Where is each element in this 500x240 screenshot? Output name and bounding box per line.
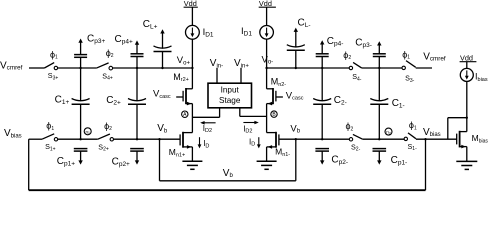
capacitor C2-: [313, 68, 347, 139]
svg-text:Cp2+: Cp2+: [112, 157, 130, 169]
wire S3+ to S4+: [58, 67, 97, 69]
svg-text:Vo-: Vo-: [262, 54, 274, 65]
svg-text:Mn1-: Mn1-: [275, 147, 290, 158]
svg-text:S3-: S3-: [405, 74, 415, 84]
input stage box U1: [208, 83, 252, 108]
svg-text:ID: ID: [249, 137, 255, 147]
wire A to input stage: [192, 116, 219, 118]
capacitor C1-: [370, 68, 404, 139]
wire S2+ to Mn1+ gate / Vb node: [114, 138, 181, 140]
capacitor C1+: [55, 68, 90, 139]
transistor Mn1-: [267, 132, 291, 158]
svg-text:Cp1-: Cp1-: [391, 155, 408, 167]
ground below Mbias: [456, 147, 477, 170]
current arrow ID2 left: [200, 121, 215, 134]
transistor Mn2-: [267, 68, 287, 105]
wire S2- to S1-: [363, 138, 405, 140]
wire Vbias bottom rail: [29, 139, 426, 190]
capacitor Cp1+: [57, 149, 88, 168]
transistor Mn1+: [169, 132, 193, 159]
node n2: [385, 128, 392, 135]
switch S1- phi1: [404, 120, 417, 152]
node Vin+: [234, 58, 249, 83]
svg-text:Vb: Vb: [157, 123, 168, 134]
node Vcasc left: [153, 89, 183, 100]
wire Vb rail box: [160, 139, 296, 181]
svg-text:S1-: S1-: [408, 142, 418, 152]
capacitor Cp1-: [373, 149, 408, 167]
svg-text:Vbias: Vbias: [423, 127, 441, 138]
svg-text:n1: n1: [85, 129, 90, 135]
current arrow ID right: [249, 137, 261, 148]
svg-text:S2-: S2-: [351, 142, 361, 152]
node Vin-: [210, 58, 223, 83]
svg-text:ϕ2: ϕ2: [343, 50, 351, 61]
wire node B vertical: [266, 104, 268, 133]
current arrow ID2 right: [243, 121, 259, 135]
svg-text:Input: Input: [221, 85, 240, 94]
svg-text:Ibias: Ibias: [475, 72, 488, 83]
svg-text:ϕ1: ϕ1: [409, 120, 417, 131]
wire input stage to node B: [239, 108, 241, 117]
svg-text:Vcasc: Vcasc: [153, 89, 171, 100]
current source ID1 left: [186, 7, 214, 68]
svg-text:ϕ1: ϕ1: [46, 121, 54, 132]
current source ID1 right: [241, 7, 273, 68]
svg-text:Cp3-: Cp3-: [355, 38, 372, 50]
svg-text:C2-: C2-: [334, 95, 347, 107]
current arrow ID left: [198, 137, 210, 149]
svg-text:Mbias: Mbias: [472, 133, 489, 144]
capacitor Cp3-: [355, 38, 386, 69]
svg-text:S2+: S2+: [98, 143, 109, 153]
svg-text:S1+: S1+: [45, 142, 56, 152]
switch S1+ phi1: [42, 121, 58, 153]
svg-text:ID: ID: [203, 139, 209, 149]
svg-text:Vb: Vb: [290, 123, 300, 134]
power Vdd right: [259, 0, 276, 8]
node B: [271, 111, 277, 118]
capacitor Cp2-: [315, 149, 348, 166]
switch S3- phi1: [402, 49, 416, 83]
svg-text:CL-: CL-: [298, 17, 311, 29]
wire S4- to S3-: [362, 67, 402, 69]
svg-text:Vin-: Vin-: [210, 58, 223, 69]
wire Mbias gate-drain feedback: [448, 118, 467, 140]
switch S4- phi2: [343, 50, 362, 82]
svg-text:S4+: S4+: [102, 72, 113, 82]
svg-text:ϕ1: ϕ1: [50, 49, 58, 60]
wire Vcmref to S3+: [29, 67, 44, 69]
svg-text:Vdd: Vdd: [259, 0, 272, 8]
ground below Mn1+: [182, 147, 202, 169]
svg-text:n2: n2: [386, 130, 391, 136]
current source Ibias: [460, 62, 488, 132]
transistor Mr2+: [173, 68, 192, 105]
svg-text:Mn1+: Mn1+: [169, 147, 185, 158]
switch S4+ phi2: [96, 48, 114, 82]
node Vcasc right: [276, 90, 304, 101]
junction dots: [79, 67, 468, 141]
capacitor Cp3+: [74, 33, 105, 68]
capacitor Cp2+: [112, 149, 144, 169]
wire node A vertical: [191, 104, 193, 133]
node n1: [84, 128, 91, 135]
svg-text:C2+: C2+: [106, 95, 121, 107]
svg-text:Mn2-: Mn2-: [271, 77, 287, 88]
svg-text:Vdd: Vdd: [184, 0, 197, 8]
switch S2- phi2: [346, 121, 363, 152]
svg-text:ID2: ID2: [243, 124, 252, 134]
svg-text:C1+: C1+: [55, 95, 70, 107]
svg-text:ID1: ID1: [241, 26, 252, 37]
svg-text:ϕ1: ϕ1: [402, 49, 410, 60]
wire Vbias to S1+: [29, 138, 42, 140]
power Vdd far right: [460, 53, 477, 62]
svg-text:Vb: Vb: [223, 168, 234, 179]
svg-text:Vo+: Vo+: [177, 55, 191, 66]
svg-text:S4-: S4-: [352, 72, 362, 82]
capacitor Cp4-: [316, 36, 344, 68]
svg-text:ϕ2: ϕ2: [346, 121, 354, 132]
svg-text:Cp4+: Cp4+: [115, 34, 133, 46]
capacitor Cp4+: [115, 34, 144, 68]
svg-text:C1-: C1-: [392, 98, 405, 110]
svg-text:Cp4-: Cp4-: [327, 36, 344, 48]
node A: [182, 111, 188, 118]
svg-text:Stage: Stage: [219, 96, 241, 105]
svg-text:ID2: ID2: [203, 124, 212, 134]
capacitor CL-: [287, 17, 311, 68]
wire S4+ to Vo+ node: [113, 67, 193, 69]
capacitor C2+: [106, 68, 146, 139]
wire S1- to Mbias gate: [416, 138, 457, 140]
svg-text:Cp2-: Cp2-: [331, 154, 348, 166]
wire Vo- node to S4-: [267, 67, 350, 69]
svg-text:Vdd: Vdd: [460, 53, 473, 62]
svg-text:Vcmref: Vcmref: [0, 60, 23, 71]
svg-text:Vcasc: Vcasc: [286, 90, 304, 101]
svg-text:ID1: ID1: [203, 27, 214, 38]
capacitor CL+: [143, 19, 172, 68]
svg-text:Cp3+: Cp3+: [87, 33, 105, 45]
switch S3+ phi1: [44, 49, 58, 81]
svg-text:Mr2+: Mr2+: [173, 72, 189, 83]
wire Mn1- gate to S2-: [279, 138, 349, 140]
wire S1+ to S2+: [58, 138, 98, 140]
transistor Mbias: [457, 131, 489, 149]
ground below Mn1-: [257, 147, 277, 169]
svg-text:Vin+: Vin+: [234, 58, 249, 69]
svg-text:Cp1+: Cp1+: [57, 156, 75, 168]
svg-text:S3+: S3+: [48, 71, 59, 81]
wire S3- to Vcmref right: [416, 67, 432, 69]
svg-text:CL+: CL+: [143, 19, 158, 31]
svg-text:Vbias: Vbias: [4, 128, 22, 139]
power Vdd left: [184, 0, 198, 8]
svg-text:Vcmref: Vcmref: [423, 51, 446, 62]
svg-text:ϕ2: ϕ2: [106, 48, 114, 59]
svg-text:ϕ2: ϕ2: [104, 121, 112, 132]
switch S2+ phi2: [98, 121, 114, 153]
